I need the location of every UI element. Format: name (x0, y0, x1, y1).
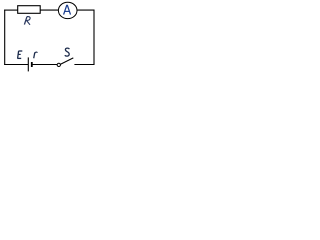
resistor R (18, 6, 41, 14)
battery long plate (positive) (27, 57, 29, 71)
battery short plate (negative) (31, 62, 33, 67)
wire bottom-left horizontal (4, 64, 28, 66)
wire left vertical (4, 10, 6, 65)
label S (drawn as path) (65, 48, 70, 56)
label R (italic, drawn as path) (24, 17, 30, 25)
wire bottom-middle horizontal (32, 64, 57, 66)
wire right vertical (93, 10, 95, 65)
ammeter A1 (58, 2, 77, 18)
wire top-middle horizontal (40, 9, 59, 11)
switch S pivot contact (57, 63, 60, 66)
label E (italic, drawn as path) (17, 51, 22, 58)
wire top-left horizontal (4, 9, 18, 11)
label r (italic, drawn as path) (34, 52, 38, 58)
switch S arm (open) (61, 58, 74, 64)
wire top-right horizontal (77, 9, 95, 11)
label A (drawn as path) (64, 5, 71, 14)
wire bottom-right horizontal (74, 64, 94, 66)
